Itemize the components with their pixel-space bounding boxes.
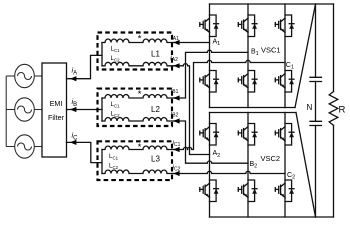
wire: bus to source V2 <box>6 109 15 111</box>
VSC2 top rail (DC+) <box>210 112 297 114</box>
svg-text:VSC2: VSC2 <box>261 154 281 163</box>
IGBT S26 (VSC2 leg3 bottom) <box>275 180 294 202</box>
ac source V1 <box>15 64 35 87</box>
svg-text:iB: iB <box>72 97 78 108</box>
wire iB: EMI filter to L2 block <box>67 109 103 111</box>
wire iA: EMI filter to L1 block <box>67 55 103 78</box>
wire: bus to source V1 <box>6 75 15 77</box>
coupled inductor block L2: dashed box <box>98 89 173 126</box>
wire iA2: L1 bottom to VSC2 phase A (hop at x185.5, down at x190.5) <box>174 64 210 155</box>
svg-text:iA: iA <box>72 66 78 77</box>
svg-text:B1: B1 <box>251 49 259 58</box>
wire iB1: L2 top up to VSC1 phase B (riser x185.5, hop over leg1) <box>174 50 248 98</box>
svg-text:LC2: LC2 <box>111 55 121 63</box>
wire iA1: L1 top to VSC1 phase A <box>174 42 210 44</box>
L1 top branch wire with inductor Lc1 <box>102 39 174 43</box>
L1 input vertical wire <box>101 43 103 66</box>
IGBT S12 (VSC1 leg2 top) <box>238 15 257 37</box>
VSC2 leg2 mid vertical <box>247 145 249 180</box>
capacitor C2 (lower DC link) <box>310 121 322 125</box>
current arrow iC1 <box>173 147 179 152</box>
svg-text:EMI: EMI <box>50 99 63 108</box>
L2 top branch wire with inductor Lc1 <box>102 95 174 98</box>
VSC2 leg3 stub <box>284 113 286 124</box>
svg-text:A2: A2 <box>213 150 221 159</box>
svg-text:Filter: Filter <box>48 113 65 122</box>
svg-text:VSC1: VSC1 <box>261 45 281 54</box>
svg-text:A1: A1 <box>213 39 221 48</box>
L3 bottom branch wire with inductor Lc2 (to arrow only, main run below) <box>102 170 174 174</box>
svg-text:LC1: LC1 <box>111 101 121 109</box>
IGBT S21 (VSC2 leg1 top) <box>200 124 219 146</box>
VSC1 leg2 lower vertical <box>247 92 249 108</box>
wire: source V1 to EMI filter <box>34 75 42 77</box>
svg-text:iB2: iB2 <box>171 110 179 119</box>
IGBT S25 (VSC2 leg2 bottom) <box>238 180 257 202</box>
current arrow iA1 <box>173 40 179 45</box>
wire: source V3 to EMI filter <box>34 146 42 148</box>
VSC2 leg3 mid vertical <box>284 145 286 180</box>
wire: ac source bus <box>5 76 7 147</box>
VSC2 leg1 lower vertical <box>209 202 211 218</box>
load branch vertical <box>333 4 335 217</box>
svg-text:C2: C2 <box>287 172 295 181</box>
svg-text:LC1: LC1 <box>109 153 119 161</box>
VSC1 leg2 stub <box>247 4 249 15</box>
wire iC1: L3 top up to VSC1 phase C (hops x185.5,x190.5; riser x195; hops legs1,2) <box>174 60 285 149</box>
wire: VSC2 DC+ diagonal to bottom junction <box>296 113 316 218</box>
current arrow iB1 <box>173 95 179 100</box>
resistor R <box>329 92 338 126</box>
VSC2 bottom rail (DC-) <box>210 216 334 218</box>
VSC2 leg1 mid vertical <box>209 145 211 180</box>
VSC2 leg2 stub <box>247 113 249 124</box>
VSC2 leg2 lower vertical <box>247 202 249 218</box>
ac source V3 <box>15 135 35 158</box>
IGBT S15 (VSC1 leg2 bottom) <box>238 71 257 93</box>
svg-text:*: * <box>138 34 142 45</box>
current arrow iC <box>70 140 76 145</box>
L3 input vertical wire <box>101 150 103 174</box>
capacitor C1 (upper DC link) <box>310 77 322 81</box>
wire: VSC1 DC- diagonal to top junction <box>295 4 316 108</box>
wire iC: EMI filter to L3 block <box>67 142 103 162</box>
svg-text:iC: iC <box>72 131 79 142</box>
wire iB2: L2 bottom down to VSC2 phase B (desc x185.5, hop over leg1) <box>174 121 248 163</box>
svg-text:*: * <box>138 89 142 100</box>
current arrow iA <box>70 76 76 81</box>
IGBT S16 (VSC1 leg3 bottom) <box>275 71 294 93</box>
current arrow iC2 <box>173 171 179 176</box>
svg-text:N: N <box>307 103 313 112</box>
wire iC2: L3 bottom to VSC2 phase C (hops legs1,2) <box>174 171 285 173</box>
current arrow iA2 <box>173 63 179 68</box>
L2 input vertical wire <box>101 98 103 121</box>
svg-text:B2: B2 <box>250 161 258 170</box>
IGBT S23 (VSC2 leg3 top) <box>275 124 294 146</box>
VSC2 leg1 stub <box>209 113 211 124</box>
svg-text:iC1: iC1 <box>173 140 181 149</box>
VSC1 top rail (DC+) <box>210 3 334 5</box>
L1 bottom branch wire with inductor Lc2 <box>102 62 174 66</box>
coupled inductor block L3: dashed box <box>98 141 173 180</box>
VSC1 leg3 stub <box>284 4 286 15</box>
svg-text:L3: L3 <box>151 155 160 164</box>
svg-text:L2: L2 <box>151 105 160 114</box>
VSC1 leg1 stub <box>209 4 211 15</box>
svg-text:iA1: iA1 <box>171 34 179 43</box>
svg-text:LC1: LC1 <box>111 46 121 54</box>
IGBT S24 (VSC2 leg1 bottom) <box>200 180 219 202</box>
VSC1 leg3 lower vertical <box>284 92 286 108</box>
L3 top branch wire with inductor Lc1 <box>102 146 174 150</box>
svg-text:L1: L1 <box>151 50 160 59</box>
VSC2 leg3 lower vertical <box>284 202 286 218</box>
VSC1 bottom rail (DC-) <box>210 107 296 109</box>
coupled inductor block L1: dashed box <box>98 33 173 70</box>
VSC1 leg1 lower vertical <box>209 92 211 108</box>
svg-text:iA2: iA2 <box>170 55 178 64</box>
svg-text:*: * <box>138 142 142 153</box>
IGBT S14 (VSC1 leg1 bottom) <box>200 71 219 93</box>
IGBT S11 (VSC1 leg1 top) <box>200 15 219 37</box>
svg-text:LC2: LC2 <box>109 163 119 171</box>
wire: source V2 to EMI filter <box>34 109 42 111</box>
svg-text:R: R <box>339 105 346 116</box>
VSC1 leg2 mid vertical <box>247 37 249 71</box>
IGBT S22 (VSC2 leg2 top) <box>238 124 257 146</box>
wire: bus to source V3 <box>6 146 15 148</box>
svg-text:LC2: LC2 <box>111 111 121 119</box>
IGBT S13 (VSC1 leg3 top) <box>275 15 294 37</box>
DC link capacitor branch vertical <box>315 4 317 217</box>
EMI filter box <box>42 63 67 157</box>
VSC1 leg3 mid vertical <box>284 37 286 71</box>
current arrow iB <box>70 107 76 112</box>
svg-text:C1: C1 <box>286 62 294 71</box>
L2 bottom branch wire with inductor Lc2 <box>102 118 174 121</box>
VSC1 leg1 mid vertical <box>209 37 211 71</box>
ac source V2 <box>15 98 35 121</box>
svg-text:iC2: iC2 <box>173 164 181 173</box>
svg-text:iB1: iB1 <box>171 87 179 96</box>
current arrow iB2 <box>173 118 179 123</box>
